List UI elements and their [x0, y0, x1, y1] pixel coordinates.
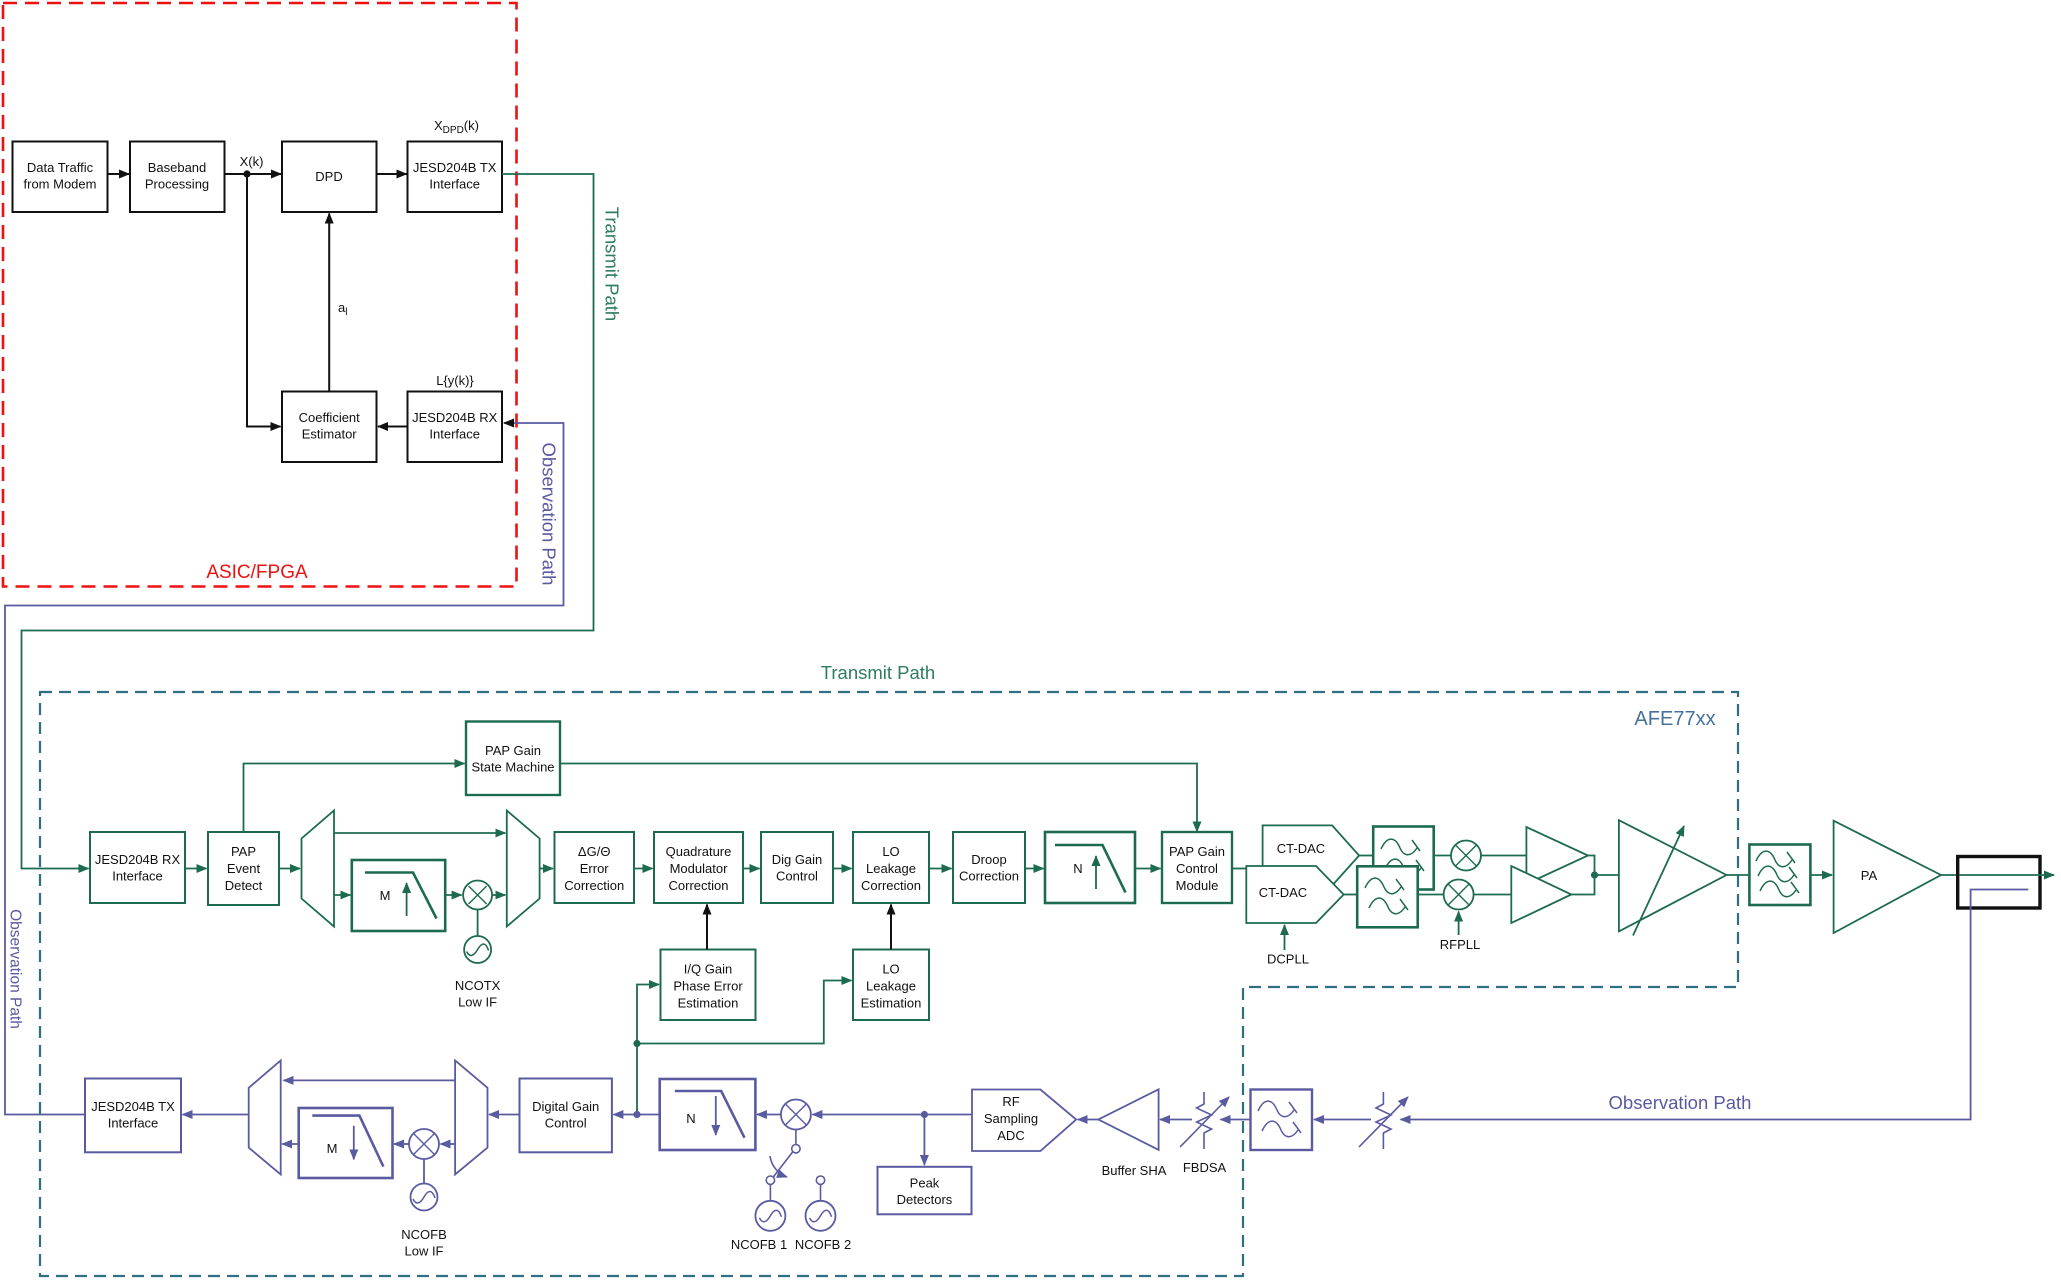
wire: buffer SHA to ADC — [1078, 1119, 1099, 1121]
svg-text:Observation Path: Observation Path — [7, 909, 24, 1029]
filter: observation band filter — [1251, 1090, 1313, 1151]
svg-text:M: M — [380, 888, 391, 903]
svg-text:Correction: Correction — [669, 878, 729, 893]
svg-text:CT-DAC: CT-DAC — [1259, 885, 1307, 900]
svg-text:Interface: Interface — [429, 427, 480, 442]
svg-text:Buffer SHA: Buffer SHA — [1102, 1163, 1167, 1178]
wire: lower filter to lower mixer — [1418, 894, 1444, 896]
svg-text:Data Traffic: Data Traffic — [27, 160, 94, 175]
svg-text:Modulator: Modulator — [670, 861, 728, 876]
wire: PAP Event Detect up to PAP Gain State Machine — [244, 764, 465, 833]
block: LO Leakage Estimation — [853, 950, 929, 1021]
DAC: CT-DAC lower — [1246, 866, 1343, 923]
svg-text:State Machine: State Machine — [471, 760, 554, 775]
wire: lower mixer to lower amp — [1474, 894, 1512, 896]
label NCOFB 2 — [795, 1237, 851, 1252]
label NCOFB 1 — [731, 1237, 787, 1252]
svg-text:Interface: Interface — [112, 869, 163, 884]
wire: JESD204B RX to PAP Event Detect — [185, 868, 207, 870]
wire: to droop correction — [929, 868, 952, 870]
svg-text:PA: PA — [1861, 868, 1878, 883]
block: JESD204B RX Interface (ASIC) — [408, 392, 503, 463]
node: X(k) junction dot — [243, 170, 250, 177]
wire: to dig gain control — [743, 868, 760, 870]
svg-text:DCPLL: DCPLL — [1267, 952, 1309, 967]
wire: demux to M interpolation filter — [334, 894, 350, 896]
svg-text:X(k): X(k) — [240, 154, 264, 169]
svg-text:Leakage: Leakage — [866, 979, 916, 994]
wire: junction to variable gain amp — [1595, 874, 1619, 876]
block: Dig Gain Control — [761, 832, 833, 903]
svg-text:Correction: Correction — [564, 878, 624, 893]
amplifier: lower Q amp — [1511, 866, 1571, 923]
wire: upper DAC to upper reconstruction filter — [1359, 855, 1373, 857]
svg-text:M: M — [327, 1141, 338, 1156]
svg-text:Detectors: Detectors — [897, 1192, 953, 1207]
svg-text:Detect: Detect — [225, 878, 263, 893]
wire: mux to JESD204B TX interface — [183, 1114, 249, 1116]
block: JESD204B RX Interface (AFE) — [90, 832, 185, 903]
wire: PAP Gain State Machine to PAP Gain Control Module — [560, 764, 1197, 832]
svg-text:JESD204B TX: JESD204B TX — [91, 1099, 175, 1114]
svg-text:Control: Control — [776, 869, 818, 884]
label Transmit Path (vertical, green) — [602, 207, 623, 321]
block: Droop Correction — [953, 832, 1025, 903]
filter: external TX band filter — [1749, 845, 1810, 906]
wire: digital gain control to OBS demux — [489, 1114, 520, 1116]
wire: tap to LO leakage estimation — [637, 981, 852, 1044]
wire: purple Observation Path from AFE JESD204B TX up to ASIC JESD204B RX — [5, 423, 564, 1115]
wire: filter to FBDSA — [1221, 1119, 1251, 1121]
svg-text:Estimator: Estimator — [302, 427, 358, 442]
wire: FBDSA to buffer SHA — [1160, 1119, 1192, 1121]
block: delta G/theta Error Correction — [555, 832, 635, 903]
mixer: TX low-IF mixer — [463, 881, 492, 910]
wire: PAP GCM to CT-DAC — [1232, 868, 1246, 870]
svg-text:Estimation: Estimation — [861, 996, 922, 1011]
svg-text:Transmit Path: Transmit Path — [602, 207, 623, 321]
svg-text:Digital Gain: Digital Gain — [532, 1099, 599, 1114]
coupler: directional coupler — [1958, 857, 2040, 909]
label RFPLL — [1440, 937, 1480, 952]
block: LO Leakage Correction — [853, 832, 929, 903]
amplifier: PA — [1834, 821, 1941, 933]
svg-text:RF: RF — [1002, 1094, 1019, 1109]
block: M decimation filter (OBS) — [299, 1108, 393, 1178]
node: observation tap junction dot — [633, 1111, 640, 1118]
svg-text:Correction: Correction — [959, 869, 1019, 884]
block: PAP Event Detect — [208, 832, 279, 905]
wire: lower DAC to lower reconstruction filter — [1344, 894, 1358, 896]
wire: tap down to peak detectors — [923, 1115, 925, 1166]
wire: TX bypass to interpolation mux — [334, 832, 505, 834]
mixer: lower RF mixer — [1444, 880, 1474, 910]
label AFE77xx — [1634, 708, 1715, 730]
mixer: upper RF mixer — [1451, 841, 1481, 871]
TX demux trapezoid — [302, 811, 335, 927]
svg-text:Baseband: Baseband — [148, 160, 207, 175]
label FBDSA — [1183, 1160, 1227, 1175]
wire: upper filter to upper mixer — [1434, 855, 1451, 857]
block: M interpolation filter (TX) — [352, 860, 445, 931]
wire: green observation tap vertical — [636, 1044, 638, 1115]
svg-text:Leakage: Leakage — [866, 861, 916, 876]
label DCPLL — [1267, 952, 1309, 967]
svg-text:Coefficient: Coefficient — [299, 410, 361, 425]
svg-text:ADC: ADC — [997, 1128, 1024, 1143]
oscillator: NCOFB — [411, 1159, 438, 1211]
svg-text:AFE77xx: AFE77xx — [1634, 708, 1715, 730]
wire: M filter to NCOTX mixer — [445, 894, 461, 896]
oscillator: NCOTX — [464, 910, 491, 964]
svg-text:Correction: Correction — [861, 878, 921, 893]
wire: baseband to DPD with X(k) node — [225, 173, 282, 175]
block: I/Q Gain Phase Error Estimation — [661, 950, 756, 1021]
wire: LO estimation up to LO leakage correction (black) — [890, 905, 892, 950]
attenuator: external variable attenuator — [1359, 1092, 1408, 1149]
label NCOTX Low IF — [455, 978, 501, 1010]
label NCOFB Low IF — [401, 1227, 447, 1259]
label L{y(k)} — [436, 373, 474, 388]
svg-text:NCOTX: NCOTX — [455, 978, 501, 993]
filter: upper reconstruction filter — [1373, 827, 1434, 890]
wire: filter to PA — [1810, 874, 1832, 876]
wire: coefficient estimator to DPD (a_l) — [328, 214, 330, 392]
wire: coupler through line to antenna — [1959, 874, 2054, 876]
block: Quadrature Modulator Correction — [654, 832, 743, 903]
oscillator: NCOFB 2 — [806, 1176, 836, 1231]
svg-text:RFPLL: RFPLL — [1440, 937, 1480, 952]
svg-text:ΔG/Θ: ΔG/Θ — [578, 844, 611, 859]
svg-text:L{y(k)}: L{y(k)} — [436, 373, 474, 388]
amplifier: Buffer SHA — [1098, 1089, 1158, 1150]
label Observation Path (vertical, purple, near ASIC) — [539, 443, 560, 586]
block: Peak Detectors — [878, 1167, 972, 1215]
svg-text:from Modem: from Modem — [24, 177, 97, 192]
wire: to quadrature modulator correction — [634, 868, 653, 870]
svg-text:Peak: Peak — [910, 1176, 940, 1191]
wire: I/Q estimation up to quadrature modulator correction (black) — [706, 905, 708, 950]
svg-text:PAP: PAP — [231, 844, 256, 859]
wire: mux to delta-G error correction — [540, 868, 553, 870]
label X_DPD(k) — [434, 118, 479, 136]
label Transmit Path (horizontal, green) — [821, 662, 935, 683]
svg-text:Observation Path: Observation Path — [539, 443, 560, 586]
TX interpolation mux trapezoid — [507, 811, 540, 927]
node: combiner junction dot — [1591, 871, 1598, 878]
wire: JESD204B RX to coefficient estimator — [378, 426, 408, 428]
svg-text:NCOFB 2: NCOFB 2 — [795, 1237, 851, 1252]
block: Digital Gain Control — [520, 1079, 612, 1153]
block: N decimation filter (OBS) — [660, 1079, 756, 1150]
wire: mixer to N decimation filter — [757, 1114, 781, 1116]
svg-text:ASIC/FPGA: ASIC/FPGA — [206, 562, 308, 583]
svg-text:Droop: Droop — [971, 852, 1006, 867]
wire: to N interpolation filter — [1025, 868, 1044, 870]
svg-text:Quadrature: Quadrature — [666, 844, 732, 859]
svg-text:Dig Gain: Dig Gain — [772, 852, 823, 867]
amplifier: upper I amp — [1526, 827, 1588, 884]
svg-text:Transmit Path: Transmit Path — [821, 662, 935, 683]
wire: DCPLL arrow into CT-DAC — [1284, 925, 1286, 950]
wire: DPD to JESD204B TX — [377, 173, 407, 175]
wire: to LO leakage correction — [833, 868, 852, 870]
filter: lower reconstruction filter — [1357, 866, 1418, 927]
svg-text:PAP Gain: PAP Gain — [485, 743, 541, 758]
wire: OBS bypass line — [284, 1079, 456, 1081]
svg-text:CT-DAC: CT-DAC — [1277, 841, 1325, 856]
svg-text:Event: Event — [227, 861, 261, 876]
svg-text:NCOFB 1: NCOFB 1 — [731, 1237, 787, 1252]
ASIC/FPGA label — [206, 562, 308, 583]
AFE77xx dashed chip boundary (L-shape) — [40, 692, 1738, 1276]
wire: amp outputs combine bracket — [1571, 856, 1594, 895]
svg-text:JESD204B RX: JESD204B RX — [95, 852, 181, 867]
block: JESD204B TX Interface (AFE) — [85, 1079, 181, 1153]
label X(k) — [240, 154, 264, 169]
wire: N filter to digital gain control — [613, 1114, 659, 1116]
wire: mixer to interpolation mux — [492, 894, 505, 896]
mixer: observation low-IF mixer — [781, 1100, 811, 1130]
wire: coupler coupled port down to observation path — [1401, 890, 2029, 1120]
svg-text:N: N — [1073, 861, 1082, 876]
wire: modem to baseband — [108, 173, 130, 175]
block: Coefficient Estimator — [282, 392, 377, 463]
DAC: CT-DAC upper — [1263, 825, 1360, 885]
label a_l — [338, 300, 347, 318]
wire: to PAP gain control module — [1135, 868, 1161, 870]
amplifier: variable gain TX amp — [1619, 820, 1727, 935]
svg-text:Low IF: Low IF — [458, 995, 497, 1010]
wire: RFPLL arrow into lower mixer — [1458, 912, 1460, 936]
block: DPD — [282, 142, 377, 213]
svg-text:Observation Path: Observation Path — [1609, 1092, 1752, 1113]
switch: NCOFB selector pole — [770, 1130, 800, 1178]
wire: attenuator to observation filter — [1314, 1119, 1371, 1121]
svg-text:Error: Error — [580, 861, 610, 876]
wire: PA to coupler — [1941, 874, 1958, 876]
svg-text:N: N — [686, 1111, 695, 1126]
svg-text:LO: LO — [882, 844, 899, 859]
wire: green Transmit Path from ASIC JESD204B TX down to AFE JESD204B RX — [22, 174, 594, 869]
svg-text:JESD204B TX: JESD204B TX — [413, 160, 497, 175]
wire: VGA to external TX filter — [1727, 874, 1750, 876]
svg-text:NCOFB: NCOFB — [401, 1227, 447, 1242]
OBS output mux trapezoid (left) — [249, 1060, 281, 1174]
svg-text:FBDSA: FBDSA — [1183, 1160, 1227, 1175]
label Buffer SHA — [1102, 1163, 1167, 1178]
svg-text:Module: Module — [1176, 878, 1219, 893]
svg-text:Low IF: Low IF — [404, 1244, 443, 1259]
svg-text:Sampling: Sampling — [984, 1111, 1038, 1126]
attenuator: FBDSA — [1180, 1092, 1229, 1149]
block: PAP Gain State Machine — [466, 722, 560, 796]
block: Data Traffic from Modem — [13, 142, 108, 213]
svg-text:PAP Gain: PAP Gain — [1169, 844, 1225, 859]
svg-text:Control: Control — [545, 1116, 587, 1131]
wire: ADC to observation mixer — [812, 1114, 972, 1116]
label Observation Path (vertical, purple, far left) — [7, 909, 24, 1029]
svg-text:Estimation: Estimation — [678, 996, 739, 1011]
wire: M filter to OBS mux — [282, 1143, 299, 1145]
svg-text:JESD204B RX: JESD204B RX — [412, 410, 498, 425]
svg-text:Control: Control — [1176, 861, 1218, 876]
svg-text:Phase Error: Phase Error — [673, 979, 743, 994]
svg-text:DPD: DPD — [315, 169, 342, 184]
OBS demux trapezoid (right) — [455, 1060, 487, 1174]
svg-text:Interface: Interface — [108, 1116, 159, 1131]
node: green tap junction dot — [633, 1040, 640, 1047]
svg-text:Processing: Processing — [145, 177, 209, 192]
svg-text:I/Q Gain: I/Q Gain — [684, 962, 732, 977]
wire: PAP Event Detect to TX demux — [279, 868, 300, 870]
svg-text:LO: LO — [882, 962, 899, 977]
block: Baseband Processing — [130, 142, 225, 213]
wire: tap to I/Q gain estimation — [637, 985, 659, 1044]
mixer: NCOFB mixer — [409, 1129, 439, 1159]
label Observation Path (horizontal, purple) — [1609, 1092, 1752, 1113]
block: N interpolation filter (TX) — [1045, 832, 1135, 903]
block: PAP Gain Control Module — [1162, 832, 1232, 903]
block: JESD204B TX Interface (ASIC) — [408, 142, 503, 213]
wire: upper mixer to upper amp — [1481, 855, 1526, 857]
wire: demux to OBS mixer — [441, 1143, 456, 1145]
wire: X(k) branch down to coefficient estimator — [247, 174, 281, 427]
ADC: RF Sampling ADC — [972, 1090, 1076, 1152]
ASIC/FPGA dashed boundary box — [3, 3, 517, 587]
oscillator: NCOFB 1 — [755, 1176, 785, 1231]
wire: mixer to M decimation filter — [394, 1143, 409, 1145]
svg-text:Interface: Interface — [429, 177, 480, 192]
node: peak detector tap dot — [921, 1111, 928, 1118]
